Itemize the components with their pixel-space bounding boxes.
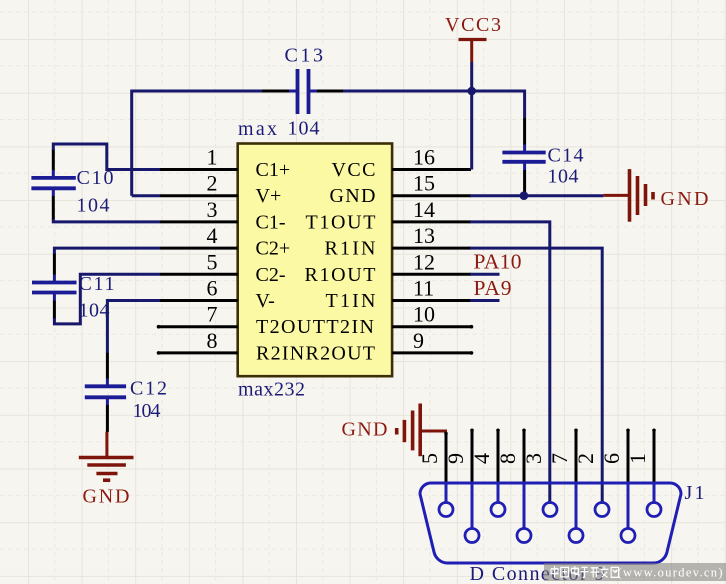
- pin leads right (pins 9-16): [392, 170, 471, 353]
- svg-text:8: 8: [207, 328, 218, 353]
- ground GND right: [603, 169, 708, 222]
- svg-text:R1OUT: R1OUT: [305, 264, 376, 286]
- junction VCC: [467, 87, 476, 96]
- watermark CJK glyph guo: [561, 567, 569, 577]
- svg-text:C11: C11: [79, 273, 115, 295]
- wire pin13 to connector pin2: [470, 248, 602, 503]
- pin numbers right: [413, 145, 435, 353]
- svg-text:VCC3: VCC3: [445, 14, 501, 36]
- wire net V+ top: [132, 91, 262, 196]
- svg-text:V+: V+: [256, 185, 282, 207]
- svg-text:C12: C12: [130, 378, 167, 400]
- IC U1 max232 body: [238, 144, 392, 377]
- wire VCC net top right: [343, 91, 525, 118]
- watermark CJK glyph zi: [581, 567, 589, 577]
- wire C11 bottom to pin5: [54, 274, 160, 324]
- pin end dots unconnected pins: [157, 325, 474, 355]
- svg-text:14: 14: [413, 197, 435, 222]
- svg-text:PA10: PA10: [474, 250, 522, 274]
- svg-text:C1+: C1+: [256, 159, 291, 181]
- svg-text:104: 104: [77, 195, 110, 217]
- svg-text:3: 3: [521, 453, 546, 464]
- pin numbers left: [207, 145, 218, 353]
- wire pin6 to C12: [107, 301, 160, 354]
- watermark CJK glyph wang: [611, 567, 618, 577]
- svg-text:9: 9: [413, 328, 424, 353]
- connector J1 body: [420, 483, 681, 563]
- svg-text:6: 6: [599, 453, 624, 464]
- svg-text:V-: V-: [256, 290, 275, 312]
- svg-text:11: 11: [413, 276, 434, 301]
- wire stub pin11 PA9: [470, 299, 500, 302]
- svg-text:J1: J1: [685, 482, 705, 504]
- svg-text:max232: max232: [238, 379, 305, 401]
- watermark CJK glyph zhong: [551, 566, 558, 577]
- svg-text:VCC: VCC: [332, 159, 376, 181]
- wire pin4 to C11 top: [54, 248, 160, 254]
- svg-text:2: 2: [573, 453, 598, 464]
- svg-text:C14: C14: [548, 145, 584, 167]
- svg-text:T1OUT: T1OUT: [306, 211, 376, 233]
- svg-text:9: 9: [443, 453, 468, 464]
- svg-text:2: 2: [207, 171, 218, 196]
- svg-text:104: 104: [79, 300, 110, 322]
- connector J1 pin lines: [446, 430, 654, 484]
- capacitor C13: [262, 45, 343, 140]
- junction GND: [520, 191, 529, 200]
- svg-text:7: 7: [207, 302, 218, 327]
- svg-text:GND: GND: [330, 185, 376, 207]
- svg-text:16: 16: [413, 145, 435, 170]
- svg-text:6: 6: [207, 276, 218, 301]
- capacitor C10: [31, 149, 113, 220]
- connector pin end dots: [444, 429, 656, 436]
- watermark CJK glyph dian: [571, 566, 578, 576]
- svg-text:4: 4: [469, 453, 494, 464]
- svg-text:1: 1: [625, 453, 650, 464]
- svg-text:C2+: C2+: [256, 238, 291, 260]
- svg-text:5: 5: [417, 453, 442, 464]
- svg-text:12: 12: [413, 249, 435, 274]
- watermark CJK glyph fa: [601, 566, 609, 577]
- pin names inside IC: [256, 159, 376, 364]
- svg-text:R2INR2OUT: R2INR2OUT: [256, 342, 375, 364]
- wire C10 bottom to pin3: [53, 219, 160, 222]
- connector holes top row: [439, 503, 661, 517]
- capacitor C14: [502, 118, 583, 196]
- svg-text:15: 15: [413, 171, 435, 196]
- svg-text:GND: GND: [83, 486, 130, 508]
- svg-text:PA9: PA9: [474, 276, 512, 300]
- ground GND at connector pin5: [342, 404, 448, 457]
- svg-text:7: 7: [547, 453, 572, 464]
- svg-text:3: 3: [207, 197, 218, 222]
- svg-text:T2OUTT2IN: T2OUTT2IN: [256, 316, 374, 338]
- wire stub pin12 PA10: [470, 273, 500, 276]
- ground GND bottom: [79, 432, 134, 508]
- svg-text:GND: GND: [661, 188, 709, 210]
- svg-text:10: 10: [413, 302, 435, 327]
- svg-text:1: 1: [207, 145, 218, 170]
- svg-text:(www.ourdev.cn): (www.ourdev.cn): [618, 566, 723, 580]
- svg-text:R1IN: R1IN: [325, 238, 376, 260]
- svg-text:104: 104: [133, 400, 161, 422]
- svg-text:max: max: [238, 118, 277, 140]
- svg-text:GND: GND: [342, 419, 388, 441]
- svg-text:104: 104: [288, 118, 320, 140]
- pin leads left (pins 1-8): [159, 170, 238, 353]
- svg-text:104: 104: [548, 166, 579, 188]
- capacitor C12: [85, 352, 167, 432]
- connector circle stems: [446, 483, 654, 529]
- power symbol VCC3: [445, 14, 501, 62]
- wire C10 top to pin1: [53, 144, 160, 170]
- watermark CJK glyph kai: [590, 568, 599, 578]
- svg-text:8: 8: [495, 453, 520, 464]
- svg-text:13: 13: [413, 223, 435, 248]
- connector pin numbers rotated: [417, 453, 650, 464]
- capacitor C11: [32, 253, 115, 322]
- svg-text:C2-: C2-: [256, 264, 286, 286]
- connector holes bottom row: [465, 529, 635, 543]
- svg-text:C13: C13: [285, 45, 324, 67]
- wire pin14 to connector pin3: [470, 222, 550, 503]
- svg-text:5: 5: [207, 249, 218, 274]
- svg-text:4: 4: [207, 223, 218, 248]
- wire VCC down to pin16: [470, 62, 473, 170]
- svg-text:C1-: C1-: [256, 211, 286, 233]
- wire GND net pin15: [470, 194, 603, 197]
- watermark: [544, 563, 726, 581]
